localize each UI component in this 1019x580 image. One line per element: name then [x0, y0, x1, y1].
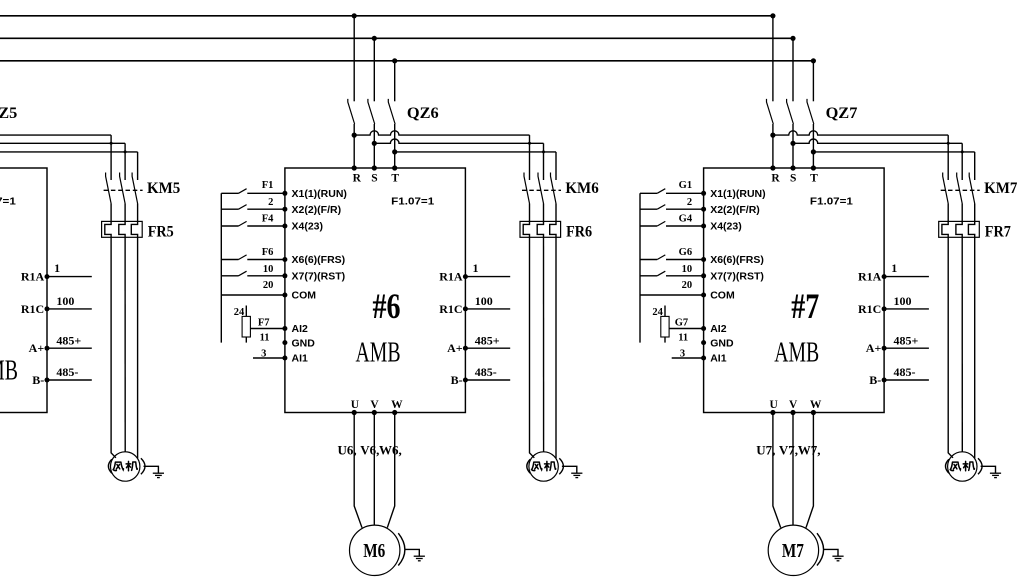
- svg-text:2: 2: [268, 197, 273, 208]
- crossing blob (phase S wire over T wire): [961, 150, 964, 153]
- svg-text:1: 1: [891, 261, 897, 275]
- svg-text:U: U: [769, 399, 778, 411]
- svg-text:M6: M6: [363, 540, 385, 562]
- svg-text:AMB: AMB: [0, 356, 18, 387]
- input GND of AMB #7 (wire 11): [701, 340, 706, 345]
- svg-text:QZ5: QZ5: [0, 103, 17, 122]
- svg-text:A+: A+: [866, 341, 882, 355]
- svg-text:X1(1)(RUN): X1(1)(RUN): [710, 188, 765, 200]
- svg-text:V7,: V7,: [779, 443, 798, 458]
- contactor KM6 pole 2: [538, 173, 544, 204]
- svg-text:100: 100: [894, 294, 912, 308]
- svg-text:3: 3: [680, 349, 685, 360]
- svg-text:B-: B-: [869, 373, 881, 387]
- input AI2 of AMB #6 (wire F7): [250, 328, 285, 330]
- svg-text:V: V: [789, 399, 798, 411]
- svg-text:AMB: AMB: [774, 337, 819, 368]
- wire: FR7 to fan (phase 2): [961, 237, 963, 451]
- svg-text:F7: F7: [258, 318, 270, 329]
- svg-text:R1C: R1C: [21, 302, 44, 316]
- svg-text:U: U: [351, 399, 360, 411]
- svg-text:G7: G7: [675, 318, 688, 329]
- svg-text:M7: M7: [782, 540, 804, 562]
- wire: QZ6 pole R to node: [353, 124, 355, 135]
- input AI1 of AMB #6 (wire 3): [253, 357, 285, 359]
- svg-text:F6: F6: [262, 247, 274, 258]
- wire: AMB #7 U to motor M7: [773, 413, 781, 528]
- svg-text:24: 24: [234, 307, 245, 318]
- svg-text:FR7: FR7: [985, 223, 1011, 240]
- junction dot: QZ6 S tap on bus: [372, 36, 377, 41]
- svg-text:F1.07=1: F1.07=1: [391, 195, 434, 207]
- input X7(7)(RST) of AMB #7 (wire 10): [640, 275, 657, 277]
- svg-text:X2(2)(F/R): X2(2)(F/R): [292, 204, 342, 216]
- junction dot: terminal W of AMB #6: [392, 410, 397, 415]
- label 风机 (fan): [532, 461, 556, 470]
- wire: AMB #6 V to motor M6: [373, 413, 375, 526]
- thermal relay FR7 body: [939, 221, 980, 237]
- wire: FR5 to fan (phase 2): [124, 237, 126, 451]
- input GND of AMB #6 (wire 11): [282, 340, 287, 345]
- input X6(6)(FRS) of AMB #6 (wire F6): [221, 259, 238, 261]
- node: QZ7 output S: [790, 141, 795, 146]
- FR6 heater element 2: [537, 221, 543, 237]
- bypass wire phase R: QZ5 to KM5: [0, 134, 111, 136]
- svg-text:100: 100: [475, 294, 493, 308]
- svg-text:R: R: [771, 172, 780, 184]
- KM5 linkage (dashed): [104, 189, 143, 191]
- svg-text:R1C: R1C: [439, 302, 462, 316]
- node: QZ6 output S: [372, 141, 377, 146]
- AMB inverter #6 box: [285, 168, 466, 413]
- bypass wire phase T: QZ7 to KM7: [813, 151, 974, 153]
- bus wire L3 (phase T): [0, 60, 813, 62]
- svg-text:X7(7)(RST): X7(7)(RST): [292, 271, 346, 283]
- svg-text:S: S: [371, 172, 377, 184]
- wire: AMB #7 V to motor M7: [792, 413, 794, 526]
- bus wire L2 (phase S): [0, 37, 793, 39]
- node: QZ7 output R: [770, 133, 775, 138]
- input COM of AMB #7 (wire 20): [640, 294, 704, 296]
- svg-text:F4: F4: [262, 214, 274, 225]
- label 风机 (fan): [113, 461, 137, 470]
- svg-text:G4: G4: [679, 214, 693, 225]
- svg-text:U6,: U6,: [338, 443, 357, 458]
- FR6 heater element 1: [523, 221, 529, 237]
- contactor KM5 pole 2: [120, 173, 126, 204]
- output B- of AMB #7: [882, 378, 887, 383]
- input X4(23) of AMB #6 (wire F4): [221, 225, 238, 227]
- svg-text:100: 100: [56, 294, 74, 308]
- svg-text:AI1: AI1: [292, 353, 309, 365]
- wire: bus to QZ6 pole R: [353, 16, 355, 102]
- svg-text:W6,: W6,: [379, 443, 402, 458]
- svg-text:QZ6: QZ6: [407, 103, 439, 122]
- svg-text:F1: F1: [262, 180, 274, 191]
- bypass wire phase S: QZ5 to KM5: [0, 142, 125, 144]
- wire: FR5 to fan (phase 1): [111, 237, 116, 457]
- svg-text:#7: #7: [791, 286, 819, 326]
- wire: FR6 to fan (phase 3): [555, 237, 557, 458]
- contactor KM5 pole 1: [106, 173, 112, 204]
- output A+ of AMB #5: [45, 346, 50, 351]
- svg-text:AI2: AI2: [292, 323, 309, 335]
- contactor KM5 pole 3: [132, 173, 138, 204]
- crossing blob (phase R wire over S wire): [110, 142, 113, 145]
- breaker QZ6 pole T: [388, 99, 395, 124]
- contactor KM7 pole 1: [943, 173, 949, 204]
- input X7(7)(RST) of AMB #6 (wire 10): [221, 275, 238, 277]
- svg-text:G1: G1: [679, 180, 692, 191]
- output R1A of AMB #7: [882, 274, 887, 279]
- ground (motor M6): [405, 549, 420, 556]
- svg-text:3: 3: [261, 349, 266, 360]
- svg-text:11: 11: [678, 332, 688, 343]
- junction dot: QZ6 T tap on bus: [392, 58, 397, 63]
- input X6(6)(FRS) of AMB #7 (wire G6): [640, 259, 657, 261]
- svg-text:GND: GND: [292, 337, 316, 349]
- svg-text:KM6: KM6: [565, 180, 599, 197]
- AMB inverter #7 box: [704, 168, 885, 413]
- svg-text:#6: #6: [373, 286, 401, 326]
- output B- of AMB #6: [463, 378, 468, 383]
- input X4(23) of AMB #7 (wire G4): [640, 225, 657, 227]
- svg-text:AI1: AI1: [710, 353, 727, 365]
- wire: FR7 to fan (phase 3): [974, 237, 976, 458]
- KM7 linkage (dashed): [941, 189, 980, 191]
- wire: bus to QZ7 pole R: [772, 16, 774, 102]
- output B- of AMB #5: [45, 378, 50, 383]
- svg-text:X2(2)(F/R): X2(2)(F/R): [710, 204, 760, 216]
- junction dot: QZ7 T tap on bus: [811, 58, 816, 63]
- svg-text:X6(6)(FRS): X6(6)(FRS): [292, 254, 346, 266]
- wire: node S to AMB #6 terminal: [373, 143, 375, 168]
- node: QZ6 output T: [392, 149, 397, 154]
- svg-text:R1A: R1A: [858, 270, 882, 284]
- svg-text:T: T: [810, 172, 818, 184]
- junction dot: terminal V of AMB #7: [790, 410, 795, 415]
- bypass wire phase R: QZ7 to KM7: [773, 131, 948, 135]
- svg-text:10: 10: [263, 264, 274, 275]
- svg-text:W7,: W7,: [798, 443, 821, 458]
- breaker QZ7 pole T: [807, 99, 814, 124]
- svg-text:485-: 485-: [894, 365, 916, 379]
- crossing blob (phase S wire over T wire): [124, 150, 127, 153]
- svg-text:FR5: FR5: [148, 223, 174, 240]
- svg-text:1: 1: [473, 261, 479, 275]
- ground (fan 6): [562, 466, 577, 473]
- svg-text:20: 20: [682, 280, 693, 291]
- svg-text:COM: COM: [710, 290, 735, 302]
- input AI1 of AMB #7 (wire 3): [672, 357, 704, 359]
- svg-text:S: S: [790, 172, 796, 184]
- svg-text:AMB: AMB: [356, 337, 401, 368]
- svg-text:11: 11: [260, 332, 270, 343]
- crossing blob (phase R wire over S wire): [528, 142, 531, 145]
- FR5 heater element 3: [131, 221, 137, 237]
- bypass wire phase T: QZ5 to KM5: [0, 151, 138, 153]
- wire: node T to AMB #6 terminal: [394, 152, 396, 168]
- FR7 heater element 2: [956, 221, 962, 237]
- output R1C of AMB #5: [45, 306, 50, 311]
- wire: AMB #6 W to motor M6: [387, 413, 394, 528]
- thermal relay FR5 body: [102, 221, 143, 237]
- svg-text:AI2: AI2: [710, 323, 727, 335]
- output A+ of AMB #6: [463, 346, 468, 351]
- input X2(2)(F/R) of AMB #7 (wire 2): [640, 208, 657, 210]
- wire: node R to AMB #6 terminal: [353, 135, 355, 168]
- bypass wire phase S: QZ7 to KM7: [793, 139, 962, 143]
- wire: FR6 to fan (phase 2): [543, 237, 545, 451]
- wire: QZ7 pole R to node: [772, 124, 774, 135]
- svg-text:KM7: KM7: [984, 180, 1018, 197]
- FR7 heater element 1: [942, 221, 948, 237]
- contactor KM6 pole 1: [524, 173, 530, 204]
- contactor KM7 pole 2: [957, 173, 963, 204]
- wire: QZ7 pole T to node: [812, 124, 814, 152]
- svg-text:485+: 485+: [894, 334, 919, 348]
- svg-text:F1.07=1: F1.07=1: [0, 195, 16, 207]
- junction dot: terminal W of AMB #7: [811, 410, 816, 415]
- wire: AMB #6 U to motor M6: [354, 413, 362, 528]
- wire: FR5 to fan (phase 3): [137, 237, 139, 458]
- input X2(2)(F/R) of AMB #6 (wire 2): [221, 208, 238, 210]
- svg-text:A+: A+: [29, 341, 45, 355]
- svg-text:QZ7: QZ7: [826, 103, 858, 122]
- potentiometer (24V) of AMB #7: [661, 316, 669, 337]
- output A+ of AMB #7: [882, 346, 887, 351]
- output R1A of AMB #6: [463, 274, 468, 279]
- input AI2 of AMB #7 (wire G7): [669, 328, 704, 330]
- junction dot: terminal U of AMB #6: [352, 410, 357, 415]
- motor M6: [350, 525, 400, 575]
- ground (fan 5): [144, 466, 159, 473]
- svg-text:R1A: R1A: [439, 270, 463, 284]
- svg-text:V6,: V6,: [360, 443, 379, 458]
- fan motor (风机) of unit 6: [529, 452, 558, 481]
- svg-text:COM: COM: [292, 290, 317, 302]
- motor M7: [768, 525, 818, 575]
- contactor KM7 pole 3: [969, 173, 975, 204]
- svg-text:W: W: [810, 399, 822, 411]
- svg-text:X1(1)(RUN): X1(1)(RUN): [292, 188, 347, 200]
- svg-text:T: T: [391, 172, 399, 184]
- output R1A of AMB #5: [45, 274, 50, 279]
- junction dot: terminal S of AMB #7: [790, 165, 795, 170]
- svg-text:B-: B-: [32, 373, 44, 387]
- output R1C of AMB #6: [463, 306, 468, 311]
- wire: FR6 to fan (phase 1): [530, 237, 535, 457]
- junction dot: terminal V of AMB #6: [372, 410, 377, 415]
- node: QZ7 output T: [811, 149, 816, 154]
- junction dot: terminal T of AMB #6: [392, 165, 397, 170]
- junction dot: QZ6 R tap on bus: [352, 13, 357, 18]
- input X1(1)(RUN) of AMB #7 (wire G1): [640, 192, 657, 194]
- junction dot: QZ7 R tap on bus: [770, 13, 775, 18]
- junction dot: terminal R of AMB #7: [770, 165, 775, 170]
- FR7 heater element 3: [968, 221, 974, 237]
- potentiometer (24V) of AMB #6: [242, 316, 250, 337]
- wire: bus to QZ7 pole T: [812, 61, 814, 102]
- svg-text:485-: 485-: [56, 365, 78, 379]
- control bus (left) of AMB #6: [220, 193, 222, 342]
- FR5 heater element 1: [105, 221, 111, 237]
- crossing blob (phase S wire over T wire): [542, 150, 545, 153]
- svg-text:485+: 485+: [56, 334, 81, 348]
- ground (fan 7): [981, 466, 996, 473]
- svg-text:X4(23): X4(23): [292, 221, 324, 233]
- svg-text:10: 10: [682, 264, 693, 275]
- node: QZ6 output R: [352, 133, 357, 138]
- svg-text:A+: A+: [447, 341, 463, 355]
- svg-text:1: 1: [54, 261, 60, 275]
- fan motor (风机) of unit 5: [111, 452, 140, 481]
- wire: bus to QZ6 pole S: [373, 38, 375, 101]
- svg-text:X7(7)(RST): X7(7)(RST): [710, 271, 764, 283]
- FR5 heater element 2: [119, 221, 125, 237]
- svg-text:KM5: KM5: [147, 180, 181, 197]
- breaker QZ6 pole R: [348, 99, 355, 124]
- svg-text:2: 2: [687, 197, 692, 208]
- svg-text:R1A: R1A: [21, 270, 45, 284]
- junction dot: terminal T of AMB #7: [811, 165, 816, 170]
- svg-text:F1.07=1: F1.07=1: [810, 195, 853, 207]
- wire: node T to AMB #7 terminal: [812, 152, 814, 168]
- wire: AMB #7 W to motor M7: [806, 413, 813, 528]
- svg-text:GND: GND: [710, 337, 734, 349]
- thermal relay FR6 body: [520, 221, 561, 237]
- junction dot: terminal R of AMB #6: [352, 165, 357, 170]
- wire: node R to AMB #7 terminal: [772, 135, 774, 168]
- output R1C of AMB #7: [882, 306, 887, 311]
- wire: bus to QZ7 pole S: [792, 38, 794, 101]
- svg-text:X6(6)(FRS): X6(6)(FRS): [710, 254, 764, 266]
- svg-text:B-: B-: [451, 373, 463, 387]
- svg-text:U7,: U7,: [756, 443, 775, 458]
- bypass wire phase S: QZ6 to KM6: [374, 139, 543, 143]
- KM6 linkage (dashed): [522, 189, 561, 191]
- bypass wire phase T: QZ6 to KM6: [395, 151, 556, 153]
- bus wire L1 (phase R): [0, 15, 773, 17]
- junction dot: terminal U of AMB #7: [770, 410, 775, 415]
- crossing blob (phase R wire over S wire): [947, 142, 950, 145]
- svg-text:W: W: [391, 399, 403, 411]
- svg-text:485-: 485-: [475, 365, 497, 379]
- AMB inverter #5 box: [0, 168, 47, 413]
- label 风机 (fan): [950, 461, 974, 470]
- svg-text:20: 20: [263, 280, 274, 291]
- junction dot: terminal S of AMB #6: [372, 165, 377, 170]
- wire: FR7 to fan (phase 1): [948, 237, 953, 457]
- wire: QZ6 pole T to node: [394, 124, 396, 152]
- svg-text:R: R: [353, 172, 362, 184]
- svg-text:V: V: [370, 399, 379, 411]
- svg-text:24: 24: [652, 307, 663, 318]
- FR6 heater element 3: [550, 221, 556, 237]
- wire: QZ6 pole S to node: [373, 124, 375, 143]
- input COM of AMB #6 (wire 20): [221, 294, 285, 296]
- svg-text:R1C: R1C: [858, 302, 881, 316]
- junction dot: QZ7 S tap on bus: [790, 36, 795, 41]
- svg-text:G6: G6: [679, 247, 692, 258]
- svg-text:FR6: FR6: [566, 223, 592, 240]
- contactor KM6 pole 3: [551, 173, 557, 204]
- svg-text:X4(23): X4(23): [710, 221, 742, 233]
- wire: node S to AMB #7 terminal: [792, 143, 794, 168]
- wire: bus to QZ6 pole T: [394, 61, 396, 102]
- breaker QZ7 pole S: [787, 99, 794, 124]
- ground (motor M7): [823, 549, 838, 556]
- wire: QZ7 pole S to node: [792, 124, 794, 143]
- input X1(1)(RUN) of AMB #6 (wire F1): [221, 192, 238, 194]
- bypass wire phase R: QZ6 to KM6: [354, 131, 529, 135]
- breaker QZ6 pole S: [368, 99, 375, 124]
- svg-text:485+: 485+: [475, 334, 500, 348]
- fan motor (风机) of unit 7: [948, 452, 977, 481]
- breaker QZ7 pole R: [767, 99, 774, 124]
- control bus (left) of AMB #7: [639, 193, 641, 342]
